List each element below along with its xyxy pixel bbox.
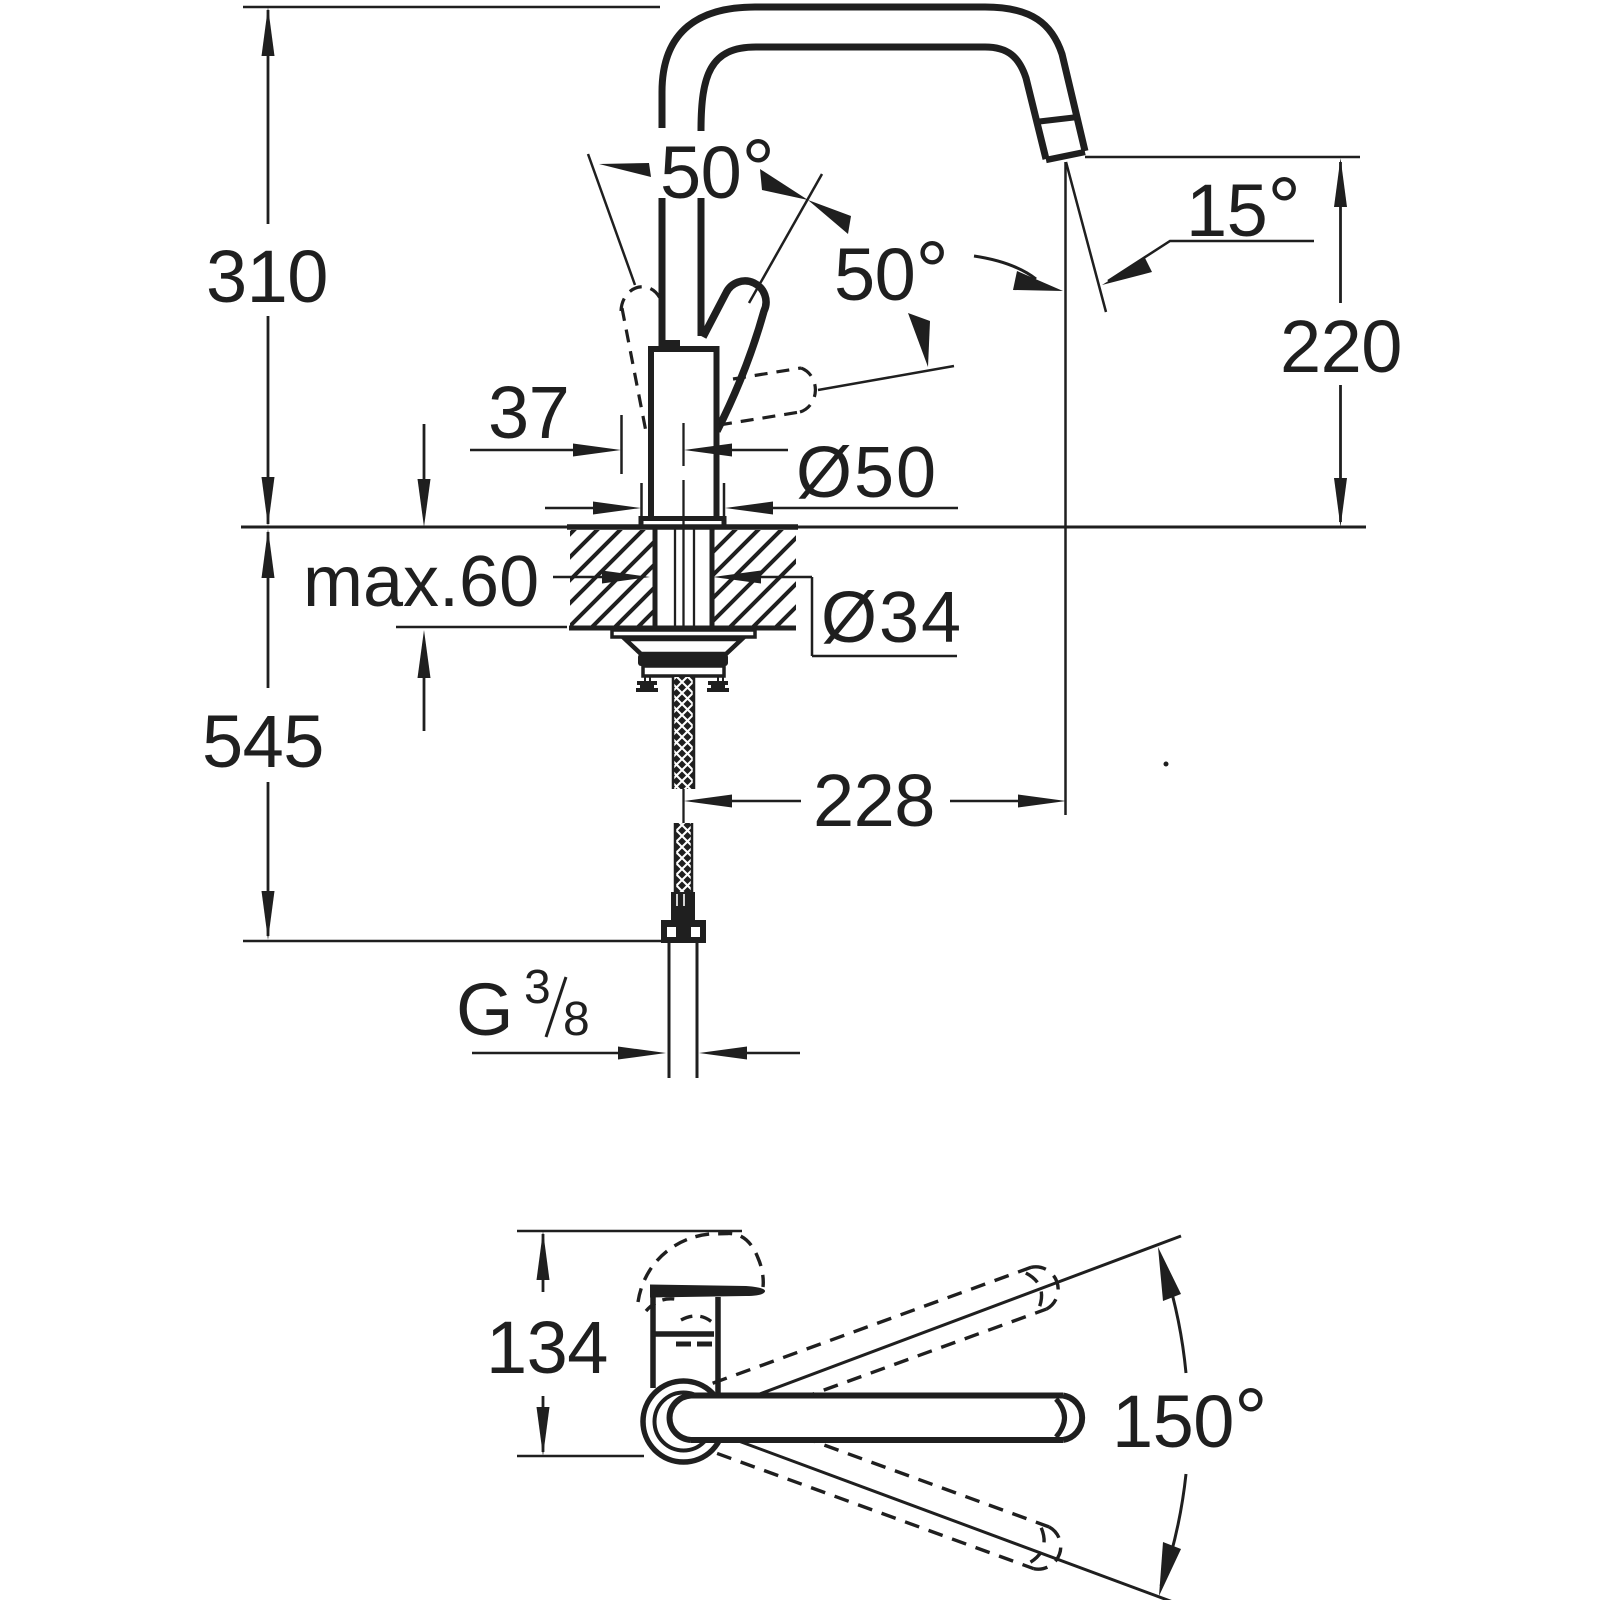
- svg-text:3: 3: [524, 961, 551, 1014]
- spout bar swivelled up (dashed): [713, 1261, 1065, 1425]
- counter hatching right: [714, 530, 796, 626]
- base flange: [641, 519, 724, 528]
- countertop thick edge: [567, 524, 798, 530]
- dimension 310 bottom arrow: [262, 477, 275, 526]
- lever hood (dashed): [638, 1233, 763, 1302]
- lever handle raised (dashed): [621, 287, 661, 311]
- 50deg lower leader from dashed handle: [818, 366, 954, 390]
- body shelf line: [651, 1331, 714, 1337]
- svg-text:220: 220: [1280, 305, 1402, 388]
- body top seam notch: [663, 340, 680, 349]
- body front view outline: [650, 1297, 656, 1388]
- mousseur seam: [1035, 117, 1078, 122]
- svg-text:Ø34: Ø34: [821, 578, 963, 658]
- 50deg leader line left: [588, 154, 635, 285]
- svg-text:310: 310: [206, 235, 328, 318]
- flexible hose braided upper: [672, 677, 695, 789]
- svg-text:545: 545: [202, 700, 324, 783]
- swivel arc lower: [1161, 1474, 1186, 1586]
- dimension 134 top extension line: [517, 1230, 742, 1233]
- escutcheon outer circle: [643, 1381, 724, 1462]
- dimension 310 extension line (top of spout): [243, 6, 660, 9]
- swivel angle leg lower: [725, 1436, 1181, 1600]
- cone washer: [625, 639, 742, 654]
- hose edges inside shank: [674, 529, 676, 629]
- svg-text:134: 134: [486, 1306, 608, 1389]
- svg-text:Ø50: Ø50: [796, 433, 938, 513]
- lever handle (solid position): [703, 281, 766, 431]
- dimension 310 top arrow: [262, 7, 275, 56]
- G3/8 dimension line right: [745, 1052, 800, 1055]
- spout bar swivelled down (dashed): [715, 1411, 1067, 1575]
- hose nut G3/8: [661, 920, 706, 943]
- mounting plate under counter: [612, 630, 755, 637]
- svg-text:max.60: max.60: [303, 542, 539, 622]
- lever handle lowered (dashed): [733, 368, 801, 379]
- 50deg swivel arc: [974, 256, 1036, 279]
- spout bar (solid position): [670, 1396, 1083, 1441]
- hose crimp collar: [671, 892, 695, 921]
- G3/8 dimension line left: [472, 1052, 620, 1055]
- svg-text:150°: 150°: [1112, 1371, 1267, 1465]
- spout outlet end: [1046, 152, 1085, 160]
- dimension 545 line: [267, 532, 270, 688]
- spout tube inner wall: [701, 47, 1046, 159]
- connection pipe: [668, 943, 671, 1078]
- spout axis 15deg line: [1066, 162, 1106, 312]
- svg-text:50°: 50°: [660, 122, 774, 216]
- svg-text:G: G: [456, 968, 514, 1051]
- faucet centerline: [682, 423, 684, 466]
- countertop line: [241, 526, 1366, 529]
- dimension 545 bottom extension line: [243, 940, 661, 943]
- swivel arc upper: [1161, 1257, 1186, 1373]
- shank right wall through counter: [710, 527, 715, 631]
- right fixing screw: [717, 676, 719, 683]
- arc arrow upper: [1158, 1247, 1181, 1301]
- shank left wall through counter: [653, 527, 658, 631]
- dimension 134 bottom extension line: [517, 1455, 644, 1458]
- label G 3/8: [456, 961, 590, 1051]
- dimension 545 bottom arrow: [262, 891, 275, 940]
- mounting nut (black band): [638, 654, 728, 666]
- spout tube outer wall: [662, 7, 1085, 151]
- max.60 top arrow: [418, 479, 431, 527]
- counter bottom edge: [569, 626, 796, 631]
- dimension 545 top arrow: [262, 529, 275, 578]
- 228 extension line (outlet axis): [1064, 162, 1067, 815]
- svg-text:8: 8: [563, 993, 590, 1046]
- counter hatching left: [570, 530, 653, 626]
- max.60 leader to counter bottom: [396, 626, 567, 629]
- hidden edge dashes: [676, 1342, 712, 1347]
- escutcheon inner circle: [655, 1393, 713, 1451]
- svg-text:37: 37: [488, 371, 569, 454]
- dimension 134 line: [542, 1234, 545, 1292]
- flexible hose braided lower: [674, 823, 693, 892]
- max.60 bottom arrow: [418, 630, 431, 678]
- arc arrow lower: [1159, 1542, 1181, 1596]
- svg-text:50°: 50°: [834, 224, 948, 318]
- svg-text:228: 228: [813, 759, 935, 842]
- stabilizer ring: [643, 666, 724, 676]
- 50deg leader line right: [749, 174, 822, 303]
- stray dot: [1164, 762, 1169, 767]
- dimension 310 line: [267, 10, 270, 224]
- faucet body: [651, 349, 717, 517]
- body front view: lever top bar: [650, 1285, 765, 1298]
- swivel angle leg upper: [725, 1236, 1181, 1407]
- left fixing screw: [644, 676, 646, 683]
